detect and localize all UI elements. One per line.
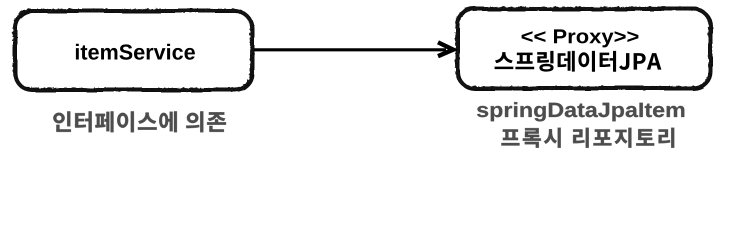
box itemService (outer sketchy border) [15,11,252,90]
label << Proxy>> [522,29,639,47]
caption 인터페이스에 의존 [53,111,226,132]
arrow shaft [254,48,446,51]
itemService [76,44,195,60]
caption 프록시 리포지토리 [501,128,674,148]
arrow head [438,42,453,56]
caption springDataJpaItem [477,102,684,121]
box itemService (speckle pass) [15,11,252,90]
box proxy (speckle pass) [457,9,710,89]
label 스프링데이터JPA [495,51,662,72]
box proxy (grain pass) [457,9,710,89]
box itemService (grain pass) [15,11,252,90]
box proxy (outer sketchy border) [457,9,710,89]
